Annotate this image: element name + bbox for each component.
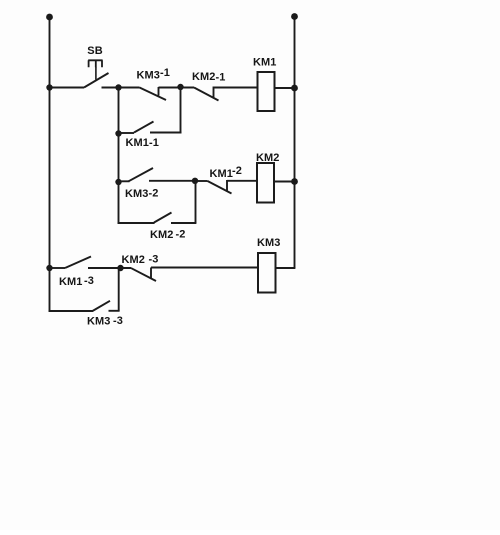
NC contact KM2-3	[132, 268, 157, 282]
wire: KM1-1 tap down to KM3-2 tap	[118, 134, 120, 183]
wire: node A down to KM1-1 tap	[118, 88, 120, 134]
wire: KM1-1 left lead	[119, 132, 135, 134]
NO contact KM1-1 (self hold)	[134, 122, 154, 133]
wire: coil KM2 to right rail	[274, 181, 295, 183]
NO contact KM3-3	[93, 301, 111, 311]
svg-text:KM1-3: KM1-3	[59, 275, 94, 288]
svg-text:SB: SB	[87, 45, 102, 57]
svg-text:KM1-2: KM1-2	[210, 165, 243, 180]
svg-text:KM3-1: KM3-1	[137, 67, 171, 82]
wire: KM3-3 right lead	[109, 310, 120, 312]
node: right rail / row3 junction	[291, 178, 298, 185]
pushbutton SB (NO momentary)	[84, 60, 109, 87]
wire: KM2-2 riser to node C	[195, 181, 197, 223]
wire: KM1-1 riser to node B	[180, 87, 182, 133]
node: KM3-2 branch tap	[115, 179, 121, 185]
NC contact KM1-2	[195, 180, 232, 194]
wire: KM2-3 to coil KM3	[151, 267, 258, 269]
wire: KM3-1 to KM2-1	[159, 87, 195, 89]
node A: SB output / self-hold tap	[115, 84, 121, 90]
NC contact KM2-1	[194, 87, 219, 101]
node: right rail / row1 junction	[291, 85, 298, 92]
NO contact KM2-2	[154, 213, 172, 223]
node: KM1-1 branch tap	[115, 130, 121, 136]
coil KM1	[258, 72, 275, 111]
node D: KM2-3 / KM3-3 junction	[117, 265, 123, 271]
node: left rail / row5 junction	[46, 265, 52, 271]
svg-text:KM1-1: KM1-1	[126, 137, 160, 149]
NO contact KM3-2	[129, 168, 154, 181]
NC contact KM3-1	[140, 87, 167, 100]
wire: row1 left rail to SB	[50, 87, 85, 89]
coil KM2	[257, 163, 274, 203]
svg-text:KM1: KM1	[253, 57, 277, 69]
svg-text:KM2-2: KM2-2	[150, 229, 186, 242]
node: right rail top terminal	[291, 13, 298, 20]
wire: KM3-2 tap down to KM2-2 branch corner	[118, 182, 120, 224]
wire: KM3-2 left lead	[119, 180, 130, 182]
node: left rail / row1 junction	[46, 84, 52, 90]
wire: KM2-2 left lead	[118, 222, 155, 224]
wire: coil KM1 to right rail	[275, 87, 295, 89]
node C: KM3-2 / KM1-2 / KM2-2 junction	[192, 178, 198, 184]
wire: coil KM3 to right rail corner	[276, 267, 296, 269]
right supply rail wire	[294, 17, 296, 269]
wire: KM1-1 right lead	[150, 132, 182, 134]
svg-text:KM3-2: KM3-2	[125, 188, 159, 201]
wire: KM3-3 riser to node D	[118, 268, 120, 311]
NO contact KM1-3	[65, 257, 91, 269]
wire: KM3-2 right lead	[149, 180, 195, 182]
node: left rail top terminal	[46, 14, 53, 21]
node B: row1 / self-hold return junction	[177, 84, 183, 90]
svg-text:KM2: KM2	[256, 152, 280, 164]
wire: SB to KM3-1	[102, 87, 140, 89]
left supply rail wire	[49, 17, 51, 312]
svg-text:KM3: KM3	[257, 237, 281, 249]
wire: KM2-1 to coil KM1	[214, 87, 258, 89]
wire: KM1-2 to coil KM2	[227, 180, 257, 182]
coil KM3	[258, 253, 276, 293]
svg-text:KM2-3: KM2-3	[122, 254, 159, 267]
wire: KM1-3 to KM2-3	[88, 267, 132, 269]
wire: KM2-2 right lead	[171, 222, 196, 224]
wire: row5 left lead	[50, 267, 66, 269]
svg-text:KM3-3: KM3-3	[87, 315, 123, 328]
wire: KM3-3 baseline from left rail	[49, 310, 93, 312]
svg-text:KM2-1: KM2-1	[192, 71, 226, 84]
